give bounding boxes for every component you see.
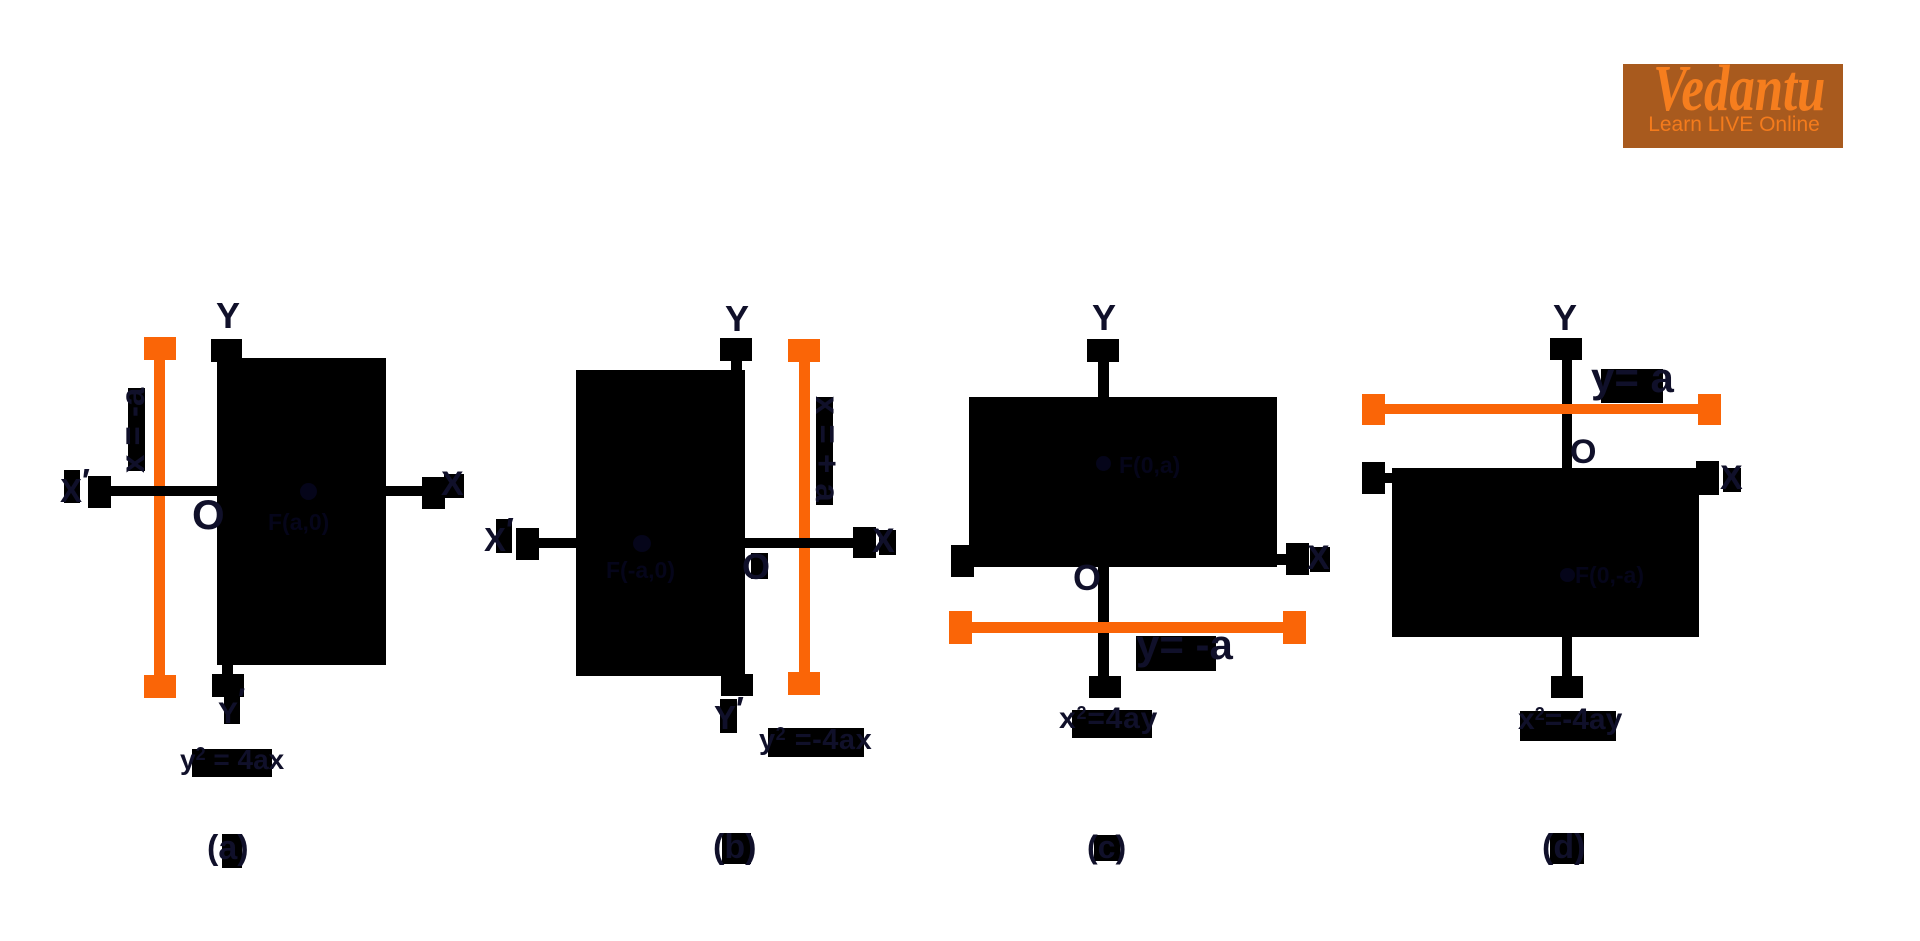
panel c: Y arrowhead xyxy=(1087,339,1119,362)
panel c: Y axis upper segment xyxy=(1098,362,1109,398)
panel d: highlight box behind caption xyxy=(1550,833,1584,864)
panel c: directrix label "y= -a" xyxy=(1136,624,1233,666)
panel c: equation x^2 = 4ay xyxy=(1059,704,1158,734)
Vedantu logo wordmark xyxy=(1653,56,1815,122)
panel b: Y' arrowhead xyxy=(721,674,753,696)
panel c: parabola interior region (solid black) xyxy=(969,397,1277,567)
panel d: Y' arrowhead xyxy=(1551,676,1583,698)
panel c: highlight box behind directrix label xyxy=(1136,636,1216,671)
panel d: highlight box behind equation xyxy=(1520,711,1616,741)
panel c: focus dot xyxy=(1096,456,1111,471)
panel b: rotated directrix label "x = + a" xyxy=(811,396,844,502)
panel a: highlight band behind rotated directrix label xyxy=(128,388,145,471)
panel a: X axis line xyxy=(111,486,422,496)
panel a: highlight box behind X xyxy=(444,474,464,498)
panel c: X axis right stub xyxy=(1277,554,1286,565)
panel d: focus label F(0,-a) xyxy=(1575,564,1644,587)
panel c: focus label F(0,a) xyxy=(1119,454,1180,477)
panel c: directrix right end cap xyxy=(1283,611,1306,644)
panel b: label O (origin) xyxy=(742,549,770,585)
panel c: Y' arrowhead xyxy=(1089,676,1121,698)
panel d: label O (origin) xyxy=(1570,435,1596,469)
panel b: parabola interior region (solid black) xyxy=(576,370,745,676)
panel d: highlight box behind X xyxy=(1723,468,1741,492)
panel b: caption (b) xyxy=(713,830,756,864)
panel a: directrix bottom end cap xyxy=(144,675,176,698)
panel d: Y axis upper segment xyxy=(1562,360,1572,468)
panel a: label Y xyxy=(216,298,240,334)
panel d: equation x^2 = -4ay xyxy=(1518,705,1622,735)
panel a: directrix top end cap xyxy=(144,337,176,360)
panel b: directrix bottom end cap xyxy=(788,672,820,695)
panel d: X' arrowhead xyxy=(1362,462,1385,494)
panel b: directrix line x=+a (orange vertical) xyxy=(799,345,810,689)
panel a: label Y' xyxy=(218,699,245,729)
panel d: focus dot xyxy=(1560,568,1575,582)
panel d: Y axis lower segment xyxy=(1562,637,1572,676)
panel c: label Y xyxy=(1092,300,1116,336)
panel b: label Y' xyxy=(714,701,744,734)
panel a: highlight box behind Y' xyxy=(224,696,240,724)
panel d: label Y xyxy=(1553,300,1577,336)
panel d: X axis left stub xyxy=(1385,473,1392,483)
panel c: highlight box behind caption xyxy=(1094,835,1120,861)
panel d: caption (d) xyxy=(1542,830,1585,864)
panel d: directrix right end cap xyxy=(1698,394,1721,425)
panel a: focus label F(a,0) xyxy=(268,511,329,534)
panel b: highlight box behind caption xyxy=(722,833,751,864)
panel a: label X' xyxy=(60,474,90,507)
panel a: directrix line x=-a (orange vertical) xyxy=(154,342,165,692)
panel b: label X xyxy=(872,524,895,558)
panel b: highlight box behind Y' xyxy=(720,699,737,733)
panel c: highlight box behind X xyxy=(1310,547,1330,572)
panel c: caption (c) xyxy=(1087,831,1126,863)
Vedantu logo tagline xyxy=(1631,114,1837,135)
panel b: highlight box behind O xyxy=(751,553,768,579)
panel d: Y arrowhead xyxy=(1550,338,1582,360)
panel c: directrix line y=-a (orange horizontal) xyxy=(971,622,1284,633)
panel b: highlight band behind rotated directrix label xyxy=(816,397,833,505)
panel b: Y arrowhead xyxy=(720,338,752,361)
panel c: X' arrowhead xyxy=(951,545,974,577)
panel a: highlight box behind caption xyxy=(222,834,242,868)
panel d: highlight box behind directrix label xyxy=(1601,369,1663,403)
panel b: label X' xyxy=(484,523,514,556)
panel d: directrix left end cap xyxy=(1362,394,1385,425)
Vedantu logo background plate xyxy=(1623,64,1843,148)
panel a: X arrowhead xyxy=(422,477,445,509)
panel b: focus label F(-a,0) xyxy=(606,559,675,582)
panel a: highlight box behind equation xyxy=(192,749,272,777)
panel b: highlight box behind equation xyxy=(768,728,864,757)
panel b: X axis line xyxy=(539,538,853,548)
panel b: label Y xyxy=(725,301,749,337)
panel b: highlight box behind X xyxy=(879,530,896,555)
panel a: rotated directrix label "x = -a" xyxy=(116,388,149,473)
panel a: parabola interior region (solid black) xyxy=(217,358,386,665)
panel c: highlight box behind equation xyxy=(1072,710,1152,738)
panel b: directrix top end cap xyxy=(788,339,820,362)
panel b: X arrowhead xyxy=(853,527,876,558)
panel a: caption (a) xyxy=(207,831,249,865)
panel d: directrix label "y= a" xyxy=(1591,357,1674,399)
panel b: highlight box behind X' xyxy=(496,519,512,553)
panel b: X' arrowhead xyxy=(516,528,539,560)
panel a: equation y^2 = 4ax xyxy=(180,745,284,774)
panel b: equation y^2 = -4ax xyxy=(759,725,872,755)
panel d: X arrowhead xyxy=(1696,461,1719,495)
panel d: parabola interior region (solid black) xyxy=(1392,468,1699,637)
panel a: Y axis lower segment xyxy=(222,662,233,677)
panel a: label X xyxy=(441,467,464,501)
panel a: label O (origin) xyxy=(192,494,225,536)
panel c: X arrowhead xyxy=(1286,543,1309,575)
panel c: label X xyxy=(1307,541,1330,575)
panel d: directrix line y=a (orange horizontal) xyxy=(1385,404,1698,414)
panel a: focus dot xyxy=(300,483,317,500)
panel c: directrix left end cap xyxy=(949,611,972,644)
panel d: label X xyxy=(1720,461,1743,495)
panel a: highlight box behind X' xyxy=(64,470,80,503)
panel a: Y arrowhead xyxy=(211,339,242,362)
panel a: X' arrowhead xyxy=(88,476,111,508)
panel c: Y axis lower segment xyxy=(1098,567,1109,676)
panel a: Y' arrowhead xyxy=(212,674,244,697)
panel b: focus dot xyxy=(633,535,651,552)
panel b: Y axis upper segment xyxy=(731,361,742,371)
panel c: label O (origin) xyxy=(1073,560,1101,596)
